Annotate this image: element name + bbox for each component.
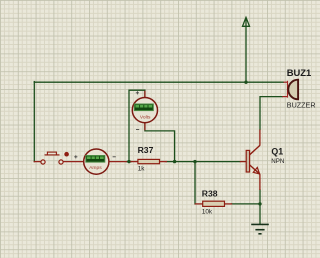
power arrow VCC (243, 17, 250, 26)
switch terminal 1 (41, 160, 45, 164)
wire power arrow stem (245, 19, 247, 83)
svg-text:BUZ1: BUZ1 (287, 67, 311, 78)
switch toggle marker (64, 152, 69, 157)
svg-text:R38: R38 (202, 188, 218, 198)
top pin (284, 81, 289, 83)
voltmeter + pin mark (136, 91, 139, 94)
ammeter + pin mark (74, 155, 77, 158)
svg-text:Volts: Volts (140, 114, 151, 120)
svg-text:10k: 10k (202, 208, 213, 215)
voltmeter - pin mark (136, 129, 139, 131)
switch left pin (34, 161, 41, 163)
R37 right pin (160, 161, 167, 163)
R37 body (138, 159, 160, 163)
emitter arrow (253, 168, 259, 174)
svg-text:NPN: NPN (271, 158, 284, 165)
voltmeter (132, 91, 157, 131)
ammeter display digits (87, 156, 104, 159)
svg-text:1k: 1k (138, 166, 146, 173)
svg-text:Q1: Q1 (271, 147, 283, 157)
wire top power bus (34, 81, 283, 83)
collector diagonal (250, 145, 260, 154)
node junction voltmeter bottom (173, 160, 176, 163)
base bar (246, 150, 249, 172)
wire left drop to switch (33, 82, 35, 162)
node junction on bus (244, 81, 247, 84)
resistor R38 (202, 188, 225, 215)
switch right pin / ammeter left pin (63, 161, 84, 163)
emitter diagonal (250, 165, 260, 174)
collector pin (259, 130, 261, 146)
base pin (240, 161, 246, 163)
voltmeter pin stubs (144, 91, 146, 131)
svg-text:BUZZER: BUZZER (287, 101, 316, 110)
bottom pin (282, 96, 288, 98)
wire emitter down to ground (259, 190, 261, 224)
switch contact bar (45, 154, 60, 156)
ammeter (74, 149, 116, 174)
wire R38 right to emitter (231, 203, 260, 205)
wire voltmeter bottom branch (145, 123, 175, 162)
emitter pin (259, 174, 261, 190)
body half disc (288, 80, 298, 100)
switch terminal 2 (59, 160, 63, 164)
voltmeter display digits (135, 105, 152, 108)
node junction R38 top (193, 160, 196, 163)
R38 right pin (225, 203, 232, 205)
ground (251, 224, 269, 233)
R37 left pin (131, 161, 138, 163)
push-button switch (41, 152, 69, 164)
ammeter right pin (109, 161, 126, 163)
voltmeter LCD display (134, 104, 153, 111)
svg-text:Amps: Amps (89, 165, 102, 171)
resistor R37 (138, 145, 160, 173)
ammeter body circle (84, 149, 109, 174)
R38 body (203, 201, 225, 206)
wire R37 to transistor base (166, 161, 240, 163)
switch actuator (47, 152, 56, 155)
buzzer BUZ1 (282, 67, 315, 110)
wire ammeter to R37 node (126, 161, 131, 163)
ammeter LCD display (86, 156, 105, 163)
wire voltmeter top branch (129, 90, 145, 161)
transistor Q1 (240, 130, 285, 191)
pin connecting line (287, 81, 289, 98)
voltmeter body circle (132, 98, 157, 123)
R38 left pin (195, 203, 202, 205)
node junction emitter/R38 (258, 202, 261, 205)
ammeter - pin mark (113, 156, 116, 158)
node junction R37 left (127, 160, 130, 163)
wire buzzer bottom to collector (260, 97, 282, 130)
svg-text:R37: R37 (138, 145, 154, 155)
wire R38 left branch (194, 162, 196, 204)
